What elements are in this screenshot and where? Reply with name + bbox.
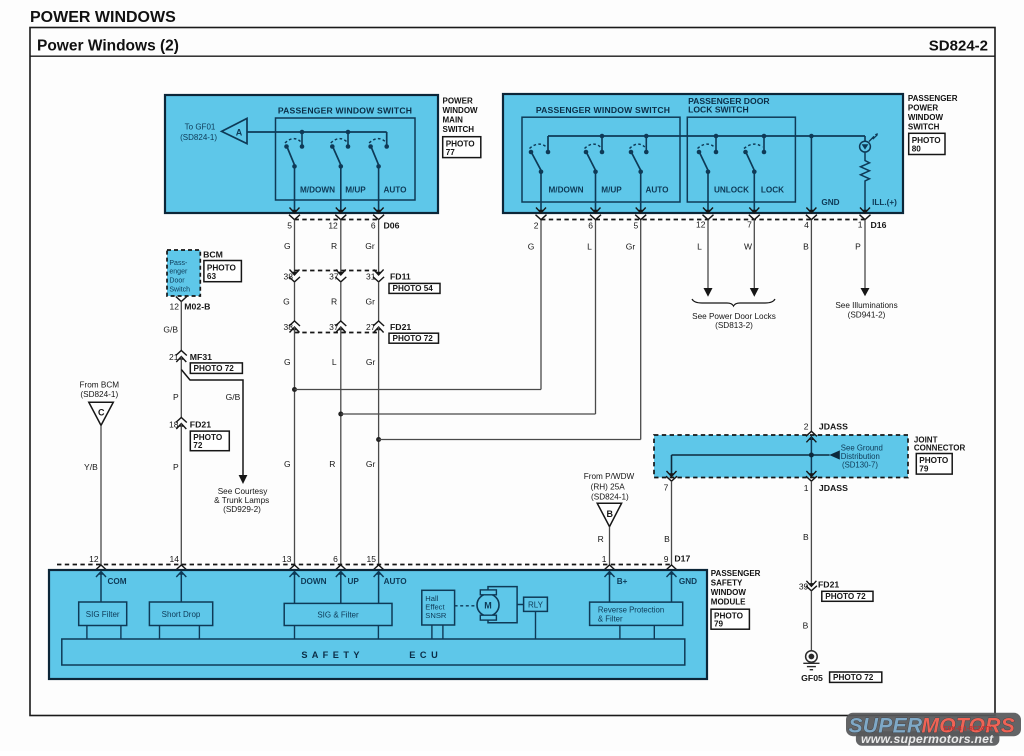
svg-text:D16: D16	[871, 220, 887, 230]
svg-text:C: C	[98, 408, 105, 418]
svg-text:SNSR: SNSR	[425, 611, 447, 620]
svg-text:PHOTO 54: PHOTO 54	[393, 284, 434, 293]
svg-text:31: 31	[366, 271, 376, 281]
svg-text:L: L	[697, 242, 702, 252]
svg-text:M02-B: M02-B	[184, 301, 210, 311]
svg-text:CONNECTOR: CONNECTOR	[914, 444, 966, 453]
svg-text:Switch: Switch	[169, 287, 190, 294]
svg-text:WINDOW: WINDOW	[908, 113, 944, 122]
svg-text:R: R	[598, 534, 604, 544]
svg-text:(RH) 25A: (RH) 25A	[591, 482, 626, 491]
svg-text:MAIN: MAIN	[443, 116, 464, 125]
svg-text:39: 39	[799, 581, 809, 591]
svg-text:1: 1	[804, 483, 809, 493]
svg-text:Gr: Gr	[366, 357, 376, 367]
svg-text:Reverse Protection: Reverse Protection	[598, 606, 664, 615]
svg-text:Power Windows (2): Power Windows (2)	[37, 38, 179, 55]
svg-text:MODULE: MODULE	[711, 597, 746, 606]
svg-text:B: B	[803, 242, 809, 252]
svg-text:13: 13	[282, 554, 292, 564]
svg-text:See Courtesy: See Courtesy	[218, 487, 269, 496]
svg-text:B: B	[803, 620, 809, 630]
svg-text:12: 12	[328, 221, 338, 231]
svg-text:PHOTO 72: PHOTO 72	[833, 673, 874, 682]
svg-text:SWITCH: SWITCH	[443, 125, 475, 134]
svg-text:37: 37	[329, 322, 339, 332]
svg-text:POWER: POWER	[908, 103, 938, 112]
svg-text:7: 7	[664, 482, 669, 492]
svg-text:SD824-2: SD824-2	[929, 38, 988, 55]
svg-text:12: 12	[89, 554, 99, 564]
svg-text:SWITCH: SWITCH	[908, 123, 940, 132]
svg-text:R: R	[329, 459, 335, 469]
svg-text:G/B: G/B	[163, 325, 178, 335]
svg-text:M/DOWN: M/DOWN	[548, 186, 583, 195]
svg-text:1: 1	[602, 554, 607, 564]
svg-text:RLY: RLY	[528, 601, 544, 610]
svg-text:(SD941-2): (SD941-2)	[848, 310, 886, 319]
svg-text:JDASS: JDASS	[819, 483, 848, 493]
svg-text:AUTO: AUTO	[383, 186, 407, 195]
svg-text:WINDOW: WINDOW	[711, 588, 747, 597]
svg-text:PHOTO 72: PHOTO 72	[393, 334, 434, 343]
svg-text:FD21: FD21	[818, 580, 839, 590]
svg-text:A: A	[236, 128, 243, 138]
svg-text:Gr: Gr	[626, 242, 636, 252]
svg-text:BCM: BCM	[203, 250, 223, 260]
svg-text:(SD824-1): (SD824-1)	[80, 390, 118, 399]
svg-text:2: 2	[804, 421, 809, 431]
svg-text:7: 7	[747, 220, 752, 230]
svg-text:5: 5	[633, 221, 638, 231]
svg-text:P: P	[173, 462, 179, 472]
svg-text:UP: UP	[348, 577, 360, 586]
svg-text:80: 80	[912, 145, 922, 154]
svg-text:AUTO: AUTO	[384, 577, 408, 586]
svg-text:ILL.(+): ILL.(+)	[872, 198, 897, 207]
svg-text:Gr: Gr	[366, 459, 376, 469]
svg-text:(SD813-2): (SD813-2)	[715, 321, 753, 330]
svg-text:PASSENGER: PASSENGER	[711, 569, 761, 578]
svg-text:FD21: FD21	[190, 419, 211, 429]
svg-text:B: B	[607, 509, 614, 519]
svg-text:6: 6	[588, 221, 593, 231]
svg-text:B+: B+	[617, 577, 628, 586]
svg-text:Short Drop: Short Drop	[162, 610, 201, 619]
svg-text:POWER WINDOWS: POWER WINDOWS	[30, 9, 176, 26]
svg-text:B: B	[664, 534, 670, 544]
svg-text:JDASS: JDASS	[819, 422, 848, 432]
svg-text:& Filter: & Filter	[598, 614, 623, 623]
svg-text:www.supermotors.net: www.supermotors.net	[861, 732, 994, 746]
svg-text:SAFETY: SAFETY	[711, 579, 743, 588]
svg-text:6: 6	[371, 221, 376, 231]
svg-text:18: 18	[169, 419, 179, 429]
svg-text:PHOTO 72: PHOTO 72	[194, 364, 235, 373]
svg-text:14: 14	[170, 554, 180, 564]
svg-text:2: 2	[534, 221, 539, 231]
svg-text:L: L	[587, 242, 592, 252]
svg-text:WINDOW: WINDOW	[443, 106, 479, 115]
svg-text:M/UP: M/UP	[345, 186, 366, 195]
svg-text:R: R	[331, 241, 337, 251]
svg-text:Pass-: Pass-	[169, 260, 188, 267]
svg-text:COM: COM	[108, 577, 127, 586]
svg-text:M/DOWN: M/DOWN	[300, 186, 335, 195]
svg-text:L: L	[332, 357, 337, 367]
svg-text:E C U: E C U	[409, 650, 439, 660]
svg-text:38: 38	[284, 271, 294, 281]
svg-text:(SD130-7): (SD130-7)	[842, 460, 878, 469]
svg-text:G: G	[283, 297, 290, 307]
svg-text:PASSENGER WINDOW SWITCH: PASSENGER WINDOW SWITCH	[278, 106, 412, 116]
svg-text:Gr: Gr	[365, 241, 375, 251]
svg-text:GND: GND	[821, 198, 839, 207]
svg-text:S A F E T Y: S A F E T Y	[301, 650, 360, 660]
svg-text:LOCK: LOCK	[761, 186, 784, 195]
svg-text:& Trunk Lamps: & Trunk Lamps	[214, 496, 269, 505]
svg-text:D17: D17	[674, 554, 690, 564]
svg-text:P: P	[173, 392, 179, 402]
svg-text:1: 1	[858, 220, 863, 230]
svg-text:R: R	[331, 297, 337, 307]
svg-text:From P/WDW: From P/WDW	[584, 472, 635, 481]
svg-text:PASSENGER WINDOW SWITCH: PASSENGER WINDOW SWITCH	[536, 105, 670, 115]
svg-text:PASSENGER: PASSENGER	[908, 94, 958, 103]
svg-text:M/UP: M/UP	[601, 186, 622, 195]
svg-text:G: G	[284, 459, 291, 469]
svg-text:D06: D06	[384, 220, 400, 230]
svg-text:G/B: G/B	[226, 392, 241, 402]
svg-text:12: 12	[170, 301, 180, 311]
svg-text:63: 63	[207, 272, 217, 281]
svg-text:(SD824-1): (SD824-1)	[591, 492, 629, 501]
svg-text:(SD824-1): (SD824-1)	[180, 133, 217, 142]
svg-text:GND: GND	[679, 577, 697, 586]
svg-text:9: 9	[664, 554, 669, 564]
svg-text:Door: Door	[169, 278, 185, 285]
svg-text:G: G	[284, 357, 291, 367]
svg-text:(SD929-2): (SD929-2)	[223, 505, 261, 514]
svg-text:GF05: GF05	[801, 673, 823, 683]
svg-text:P: P	[855, 242, 861, 252]
svg-text:79: 79	[919, 464, 929, 473]
svg-text:AUTO: AUTO	[645, 186, 669, 195]
svg-text:79: 79	[714, 619, 724, 628]
svg-text:To GF01: To GF01	[185, 123, 216, 132]
svg-text:27: 27	[366, 322, 376, 332]
svg-text:5: 5	[287, 221, 292, 231]
svg-text:UNLOCK: UNLOCK	[714, 186, 749, 195]
svg-text:enger: enger	[169, 269, 188, 276]
svg-text:M: M	[484, 601, 492, 611]
svg-text:G: G	[284, 241, 291, 251]
svg-text:72: 72	[193, 441, 203, 450]
svg-text:15: 15	[367, 554, 377, 564]
svg-text:W: W	[744, 242, 752, 252]
svg-text:FD11: FD11	[390, 271, 411, 281]
svg-text:DOWN: DOWN	[301, 577, 327, 586]
svg-text:PHOTO 72: PHOTO 72	[825, 592, 866, 601]
svg-text:LOCK SWITCH: LOCK SWITCH	[688, 105, 749, 115]
svg-text:POWER: POWER	[443, 96, 473, 105]
svg-text:SIG & Filter: SIG & Filter	[317, 611, 359, 620]
svg-text:SIG Filter: SIG Filter	[86, 610, 120, 619]
svg-text:G: G	[528, 242, 535, 252]
svg-text:Gr: Gr	[365, 297, 375, 307]
svg-text:4: 4	[804, 220, 809, 230]
svg-text:37: 37	[329, 271, 339, 281]
svg-text:6: 6	[333, 554, 338, 564]
svg-text:See Power Door Locks: See Power Door Locks	[692, 312, 776, 321]
svg-text:From BCM: From BCM	[80, 380, 120, 389]
svg-text:See Illuminations: See Illuminations	[835, 301, 897, 310]
svg-text:Y/B: Y/B	[84, 462, 98, 472]
svg-text:MF31: MF31	[190, 352, 212, 362]
svg-text:21: 21	[169, 352, 179, 362]
svg-text:38: 38	[284, 322, 294, 332]
svg-text:12: 12	[696, 220, 706, 230]
svg-text:FD21: FD21	[390, 322, 411, 332]
svg-text:B: B	[803, 532, 809, 542]
svg-text:77: 77	[446, 148, 456, 157]
